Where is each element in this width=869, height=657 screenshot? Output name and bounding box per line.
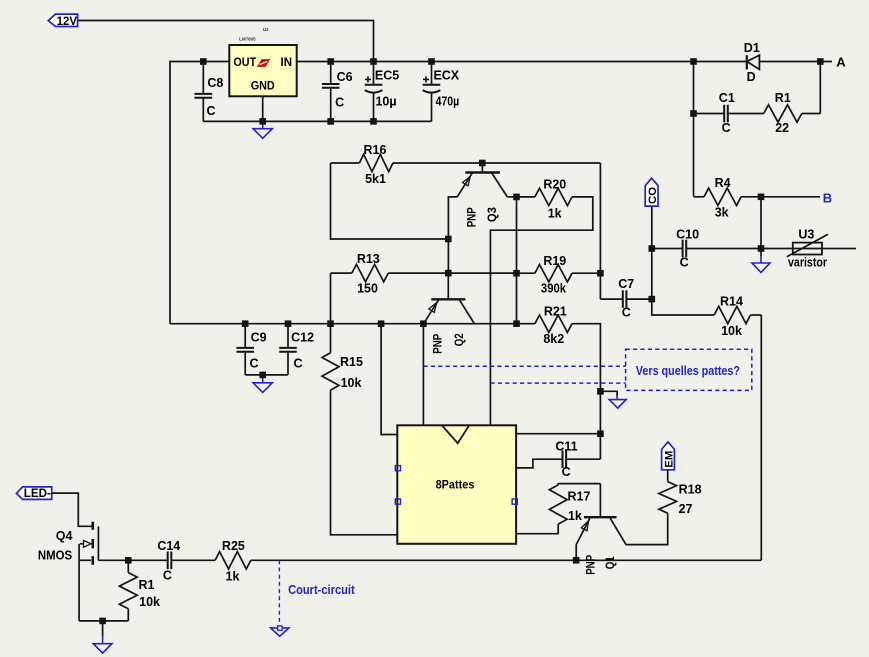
svg-text:R13: R13 [357, 252, 380, 266]
svg-text:LM7805: LM7805 [239, 36, 256, 41]
svg-text:OUT: OUT [233, 57, 256, 69]
svg-text:PNP: PNP [430, 334, 444, 354]
svg-text:R4: R4 [715, 176, 731, 190]
svg-text:470µ: 470µ [436, 95, 460, 109]
svg-text:U2: U2 [263, 27, 269, 32]
svg-text:A: A [836, 54, 846, 69]
svg-text:C: C [335, 96, 344, 110]
svg-text:D1: D1 [744, 41, 760, 55]
svg-text:R19: R19 [543, 254, 566, 268]
svg-text:Q2: Q2 [452, 333, 466, 346]
svg-text:Q3: Q3 [485, 207, 499, 222]
svg-text:Vers quelles pattes?: Vers quelles pattes? [636, 364, 740, 378]
svg-text:C: C [206, 104, 215, 118]
svg-text:C: C [622, 305, 631, 319]
svg-text:10k: 10k [721, 324, 742, 338]
svg-text:ECX: ECX [433, 69, 459, 83]
svg-text:5k1: 5k1 [365, 172, 386, 186]
svg-text:EM: EM [664, 451, 676, 468]
svg-text:C: C [562, 465, 571, 479]
svg-text:D: D [747, 70, 756, 84]
svg-text:R18: R18 [679, 483, 702, 497]
svg-text:C: C [163, 569, 172, 583]
svg-text:PNP: PNP [464, 207, 478, 227]
svg-text:C10: C10 [676, 227, 699, 241]
svg-text:R20: R20 [543, 177, 566, 191]
svg-text:R25: R25 [222, 539, 245, 553]
svg-text:1k: 1k [226, 569, 240, 583]
svg-text:R17: R17 [568, 490, 591, 504]
svg-text:U3: U3 [798, 227, 814, 241]
svg-text:1k: 1k [568, 509, 582, 523]
svg-text:8k2: 8k2 [543, 332, 564, 346]
svg-text:10µ: 10µ [375, 95, 396, 109]
svg-text:C11: C11 [555, 440, 577, 454]
svg-text:12V: 12V [57, 14, 78, 28]
svg-text:C12: C12 [291, 331, 314, 345]
svg-text:C14: C14 [157, 539, 180, 553]
svg-text:varistor: varistor [788, 256, 827, 270]
svg-text:150: 150 [357, 281, 378, 295]
svg-text:R1: R1 [775, 91, 791, 105]
svg-text:Q4: Q4 [56, 529, 73, 543]
svg-text:C8: C8 [207, 76, 223, 90]
svg-text:R1: R1 [139, 578, 155, 592]
svg-text:C1: C1 [719, 91, 735, 105]
svg-text:NMOS: NMOS [38, 549, 72, 563]
svg-text:B: B [823, 190, 832, 205]
svg-text:10k: 10k [139, 595, 160, 609]
svg-text:22: 22 [775, 121, 789, 135]
svg-text:10k: 10k [341, 376, 362, 390]
svg-text:3k: 3k [715, 205, 729, 219]
svg-text:R16: R16 [364, 143, 387, 157]
svg-text:Q1: Q1 [603, 556, 617, 569]
svg-text:C: C [680, 255, 689, 269]
svg-text:R21: R21 [544, 305, 567, 319]
svg-text:C: C [722, 121, 731, 135]
svg-text:C7: C7 [618, 277, 634, 291]
svg-text:C9: C9 [251, 331, 267, 345]
svg-text:C6: C6 [337, 70, 353, 84]
svg-text:R15: R15 [340, 355, 363, 369]
svg-text:R14: R14 [720, 294, 743, 308]
svg-text:LED-: LED- [24, 486, 51, 500]
svg-text:PNP: PNP [584, 555, 598, 575]
svg-text:IN: IN [281, 57, 293, 69]
svg-text:8Pattes: 8Pattes [436, 477, 475, 491]
svg-text:27: 27 [679, 502, 693, 516]
svg-text:GND: GND [251, 78, 275, 92]
svg-text:CO: CO [647, 187, 659, 204]
svg-text:EC5: EC5 [375, 69, 399, 83]
svg-text:C: C [293, 356, 302, 370]
svg-text:390k: 390k [541, 281, 566, 295]
svg-text:C: C [249, 356, 258, 370]
svg-text:Court-circuit: Court-circuit [288, 583, 355, 597]
svg-text:1k: 1k [548, 207, 562, 221]
